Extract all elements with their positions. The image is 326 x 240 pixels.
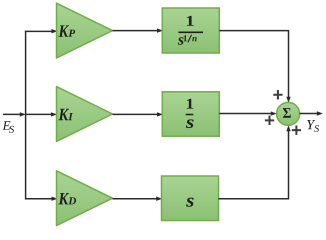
- wire branch to KD: [25, 197, 58, 201]
- label fraction 1 over s: [186, 99, 194, 128]
- wire KP to block 1: [113, 28, 164, 32]
- label KD: [58, 193, 76, 204]
- gain block KP (triangle): [57, 3, 113, 58]
- label KP: [58, 25, 75, 36]
- plus sign at bottom input: [292, 125, 301, 134]
- transfer block 1/s^(1/n): [162, 8, 219, 53]
- wire block 3 to summing junction (right then up): [219, 125, 291, 199]
- wire branch vertical line: [25, 31, 27, 200]
- plus sign at left input: [265, 116, 274, 125]
- wire KI to block 2: [113, 112, 164, 116]
- wire block 2 to summing junction: [219, 111, 276, 115]
- node label Y_S: [307, 120, 319, 132]
- wire branch to KP: [25, 29, 58, 33]
- label s: [186, 198, 194, 207]
- transfer block 1/s: [162, 92, 219, 136]
- transfer block s: [162, 176, 219, 221]
- gain block KD (triangle): [57, 171, 113, 226]
- wire summing junction to output: [300, 111, 323, 115]
- summing junction circle: [277, 102, 300, 125]
- wire E_S input to branch node: [3, 112, 26, 116]
- wire block 1 to summing junction (right then down): [219, 31, 290, 103]
- node label E_S: [2, 121, 14, 133]
- wire KD to block 3: [113, 197, 163, 201]
- wire branch to KI: [26, 112, 57, 116]
- label fraction 1 over s^(1/n): [178, 16, 203, 45]
- plus sign at top input: [273, 90, 282, 99]
- label sigma: [283, 108, 291, 118]
- gain block KI (triangle): [57, 87, 113, 142]
- label KI: [58, 109, 73, 120]
